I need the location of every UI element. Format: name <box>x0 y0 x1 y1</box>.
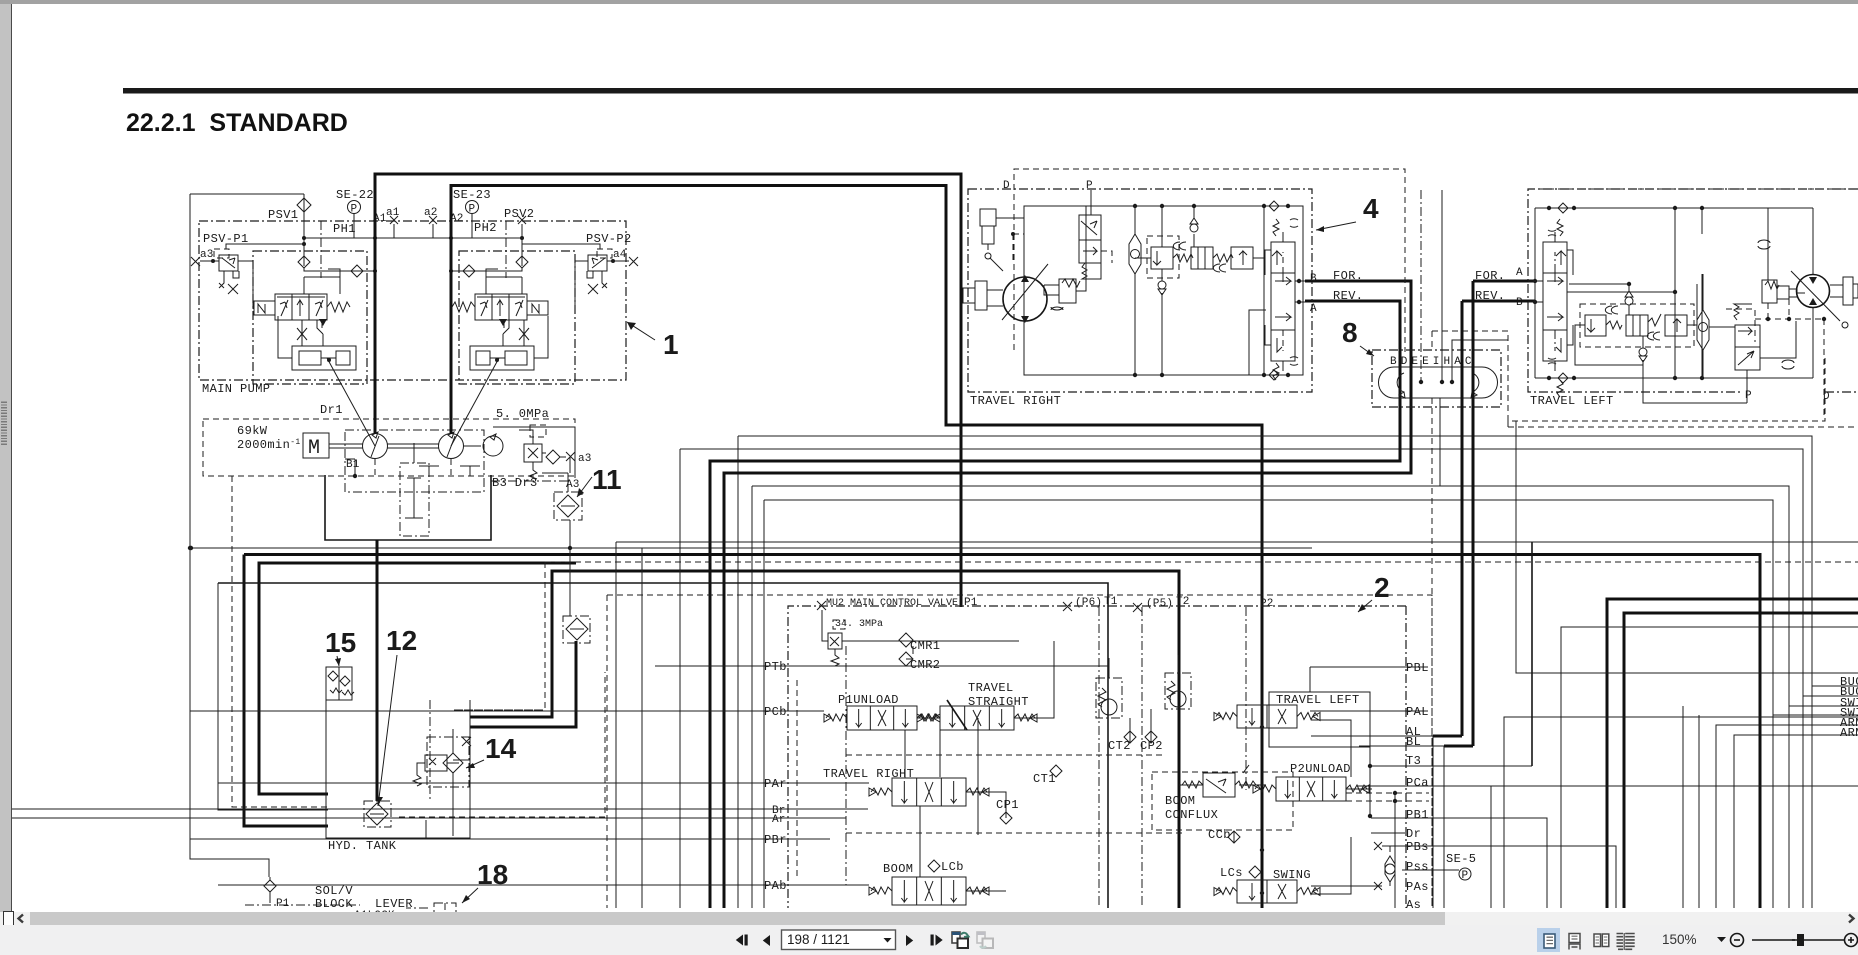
svg-text:CCb: CCb <box>1208 828 1231 842</box>
scrollbar corner box <box>3 911 14 927</box>
previous view icon <box>952 932 960 943</box>
brake cluster springs <box>1173 254 1193 262</box>
svg-text:STRAIGHT: STRAIGHT <box>968 695 1029 709</box>
svg-text:REV.: REV. <box>1333 289 1363 303</box>
wire PB1 <box>1371 818 1547 908</box>
MCV dash-dot enclosure <box>788 606 1406 908</box>
page number box <box>782 930 896 950</box>
wire PAL <box>1310 710 1428 712</box>
svg-text:PAr: PAr <box>764 777 787 791</box>
svg-text:CP1: CP1 <box>996 798 1019 812</box>
svg-text:PH2: PH2 <box>474 221 497 235</box>
cb left dashes <box>1554 252 1556 351</box>
wire T3 <box>1370 765 1532 767</box>
cluster left check top <box>1625 297 1633 305</box>
riser 642 <box>641 548 643 908</box>
tl solenoid spring <box>1734 304 1752 320</box>
riser 616 <box>615 542 617 908</box>
swivel stadium <box>1378 367 1497 398</box>
svg-text:CONFLUX: CONFLUX <box>1165 808 1218 822</box>
thick swivel line A <box>724 281 1411 719</box>
port P5 x-mark <box>1133 603 1142 612</box>
pilot valve U-right spring <box>452 302 475 312</box>
CMR wires <box>822 610 1019 659</box>
last page button <box>931 935 934 946</box>
travel motor left <box>1797 275 1830 308</box>
wire Dr <box>1371 832 1405 834</box>
wire case drain right <box>491 480 568 482</box>
thick riser 724 <box>723 719 726 908</box>
svg-text:LCb: LCb <box>941 860 964 874</box>
zoom out button <box>1731 934 1744 947</box>
regulator right dash-dot box <box>459 251 575 384</box>
tl long verticals <box>1675 208 1702 378</box>
tank stub wires <box>426 729 470 838</box>
wire nest mid <box>616 541 1858 543</box>
svg-text:PAs: PAs <box>1406 880 1429 894</box>
svg-text:TRAVEL LEFT: TRAVEL LEFT <box>1530 394 1614 408</box>
pilot valve U-right stem <box>486 269 522 294</box>
horizontal scrollbar row <box>0 912 1858 925</box>
wire AL <box>1311 735 1433 737</box>
svg-text:PCa: PCa <box>1406 776 1429 790</box>
svg-text:2: 2 <box>1374 572 1390 603</box>
BOOM CONFLUX dashdot box <box>1152 772 1293 830</box>
svg-text:P: P <box>1462 870 1469 882</box>
valve BOOM MCV <box>892 877 966 905</box>
svg-text:ARM: ARM <box>1840 726 1858 740</box>
svg-text:LCs: LCs <box>1220 866 1243 880</box>
swivel elbow H <box>1452 340 1508 382</box>
svg-text:B1: B1 <box>346 459 360 471</box>
shuttle valve right <box>1129 234 1141 274</box>
left reg drop arrow <box>319 319 327 326</box>
left sidebar strip <box>0 4 12 912</box>
wire nest row1b <box>680 449 1858 696</box>
motor shaft right <box>975 281 987 310</box>
right corner 673 <box>1516 421 1858 673</box>
check LCb <box>928 860 940 872</box>
pilot valve U-left stem <box>304 269 340 294</box>
tl relief feed <box>1767 208 1769 280</box>
filter mid diamond box <box>563 616 590 643</box>
solv wires <box>270 877 445 910</box>
pilot valve U-right arrows <box>480 300 523 316</box>
svg-text:PTb: PTb <box>764 660 787 674</box>
swivel dashed upper box <box>1432 331 1508 421</box>
counterbalance right bottom <box>1271 330 1295 361</box>
svg-text:12: 12 <box>386 625 417 656</box>
svg-text:8: 8 <box>1342 317 1358 348</box>
check CP1 <box>1000 812 1012 824</box>
travel motor right <box>1003 277 1047 321</box>
svg-text:Pss: Pss <box>1406 860 1429 874</box>
shuttle valve left <box>1697 310 1709 350</box>
svg-text:PCb: PCb <box>764 705 787 719</box>
tl motor top wire <box>1812 208 1814 378</box>
pilot valve U-left arrows <box>280 300 323 316</box>
svg-text:D: D <box>1003 180 1010 192</box>
svg-text:A: A <box>1516 267 1523 279</box>
counterbalance right top <box>1271 242 1295 273</box>
filter 14 group <box>443 753 463 773</box>
svg-text:PH1: PH1 <box>333 222 356 236</box>
pilot valve U-left spring <box>327 302 350 312</box>
svg-text:198 / 1121: 198 / 1121 <box>787 932 850 947</box>
zoom slider handle <box>1797 934 1804 946</box>
port a4R x-mark <box>629 257 638 266</box>
svg-text:SE-5: SE-5 <box>1446 852 1476 866</box>
swash link left <box>327 358 375 446</box>
regulator left dash-dot box <box>253 251 367 384</box>
check CT2 <box>1124 731 1136 743</box>
brake cluster dashed box <box>1147 236 1179 278</box>
throttle x left <box>297 328 307 340</box>
feed line right <box>451 268 522 271</box>
svg-text:a3: a3 <box>578 453 592 465</box>
wire PCa <box>1357 785 1491 787</box>
dashed long 427 <box>1508 426 1858 428</box>
thick pump line P2 top <box>451 186 1262 909</box>
tl cluster drain <box>1643 372 1747 403</box>
throttle x right <box>519 328 529 340</box>
PSV-P2 pilot wires <box>522 244 600 309</box>
filter 12 dash-dot box <box>364 801 391 827</box>
brake cluster left box1 <box>1585 315 1606 336</box>
pilot line left vertical <box>189 194 191 548</box>
svg-text:PAb: PAb <box>764 879 787 893</box>
relief valve 5MPa <box>524 444 542 462</box>
relief valve MCV mid2 <box>1165 673 1191 709</box>
thick rev left <box>1462 300 1535 303</box>
filter 11 dash-dot box <box>554 492 582 520</box>
swivel dashed drop <box>1431 398 1433 908</box>
P2UNLOAD dashed rows <box>1276 793 1429 801</box>
tank dashed wires <box>454 709 540 711</box>
label 14 with leader <box>466 733 517 768</box>
wire Br <box>0 808 868 810</box>
two page scrolling icon <box>1617 934 1635 950</box>
wire PBL drop <box>1309 667 1311 692</box>
zoom slider track <box>1752 939 1844 941</box>
filter 12 diamond <box>366 803 388 825</box>
wire A3 filter <box>542 473 568 492</box>
svg-text:As: As <box>1406 898 1421 912</box>
thick long bus 554 <box>244 555 1760 909</box>
tl rail dots <box>1547 206 1551 210</box>
svg-text:14: 14 <box>485 733 517 764</box>
tl A wire <box>1528 280 1543 282</box>
check LCs <box>1249 866 1261 878</box>
check diamond P1 solv <box>264 880 276 892</box>
brake cluster box2 <box>1191 247 1213 269</box>
accumulator center <box>400 463 429 536</box>
dashed vert MCV outer left <box>606 595 608 908</box>
wire nest row5 <box>1716 725 1858 908</box>
port PBs x-mark <box>1374 842 1382 850</box>
port P6 x-mark <box>1063 602 1072 611</box>
valve TRAVEL STRAIGHT <box>940 706 1014 730</box>
cb checks rail <box>1329 205 1331 207</box>
section rule <box>123 88 1858 94</box>
check valve right reg <box>516 256 528 268</box>
MCV right verticals <box>1370 693 1444 908</box>
swivel dashdot D <box>1420 190 1422 382</box>
travel group dashed box <box>1014 169 1405 352</box>
port 14 x-mark <box>462 737 471 746</box>
riser 680 <box>679 449 681 908</box>
svg-text:P2: P2 <box>1260 598 1274 610</box>
feed line left <box>304 268 375 271</box>
MCV dashed internals <box>796 680 798 880</box>
svg-text:1: 1 <box>663 329 679 360</box>
label 18 with leader <box>462 859 508 903</box>
row 583 to T1 <box>218 583 1108 908</box>
first page button <box>736 935 743 946</box>
label 12 with leader <box>377 625 417 806</box>
travel left inner box <box>1535 208 1813 378</box>
brake cluster left dashed box <box>1580 304 1694 347</box>
next page button <box>906 935 913 946</box>
pump case dashed box <box>203 419 575 476</box>
reducing valve PSV-P2 <box>588 255 607 271</box>
dashed box MCV outer <box>607 595 1432 908</box>
brake cluster box1 <box>1151 247 1173 269</box>
cb dashes <box>1282 252 1284 351</box>
pilot valve U-left pilot box <box>254 301 275 315</box>
valve TRAVEL LEFT MCV <box>1237 705 1297 728</box>
prev page button <box>763 935 770 946</box>
scrollbar thumb <box>30 912 1445 925</box>
shuttle Pss <box>1385 856 1395 882</box>
thick swivel downs <box>1462 281 1473 746</box>
svg-text:T1: T1 <box>1104 596 1118 608</box>
thick swivel line B <box>710 301 1400 729</box>
counterbalance left top <box>1543 242 1567 273</box>
dashed elbow 545 <box>454 562 545 710</box>
junction dot node <box>188 546 192 550</box>
svg-text:PBr: PBr <box>764 833 787 847</box>
svg-text:LEVER: LEVER <box>375 897 413 911</box>
valve TRAVEL LEFT MCV box <box>1269 692 1370 747</box>
svg-text:T2: T2 <box>1176 596 1190 608</box>
tl relief dashes <box>1768 299 1789 319</box>
svg-text:(P6): (P6) <box>1075 597 1102 609</box>
tl flow arcs <box>1782 360 1794 369</box>
travel left dash-dot box <box>1528 189 1858 392</box>
wire left column a <box>190 547 1312 549</box>
next view icon disabled <box>977 932 993 948</box>
reducing valve PSV-P1 <box>219 255 238 271</box>
travel right inner box <box>1024 206 1303 375</box>
pilot valve U-left body <box>275 294 327 320</box>
P2 dashdot riser <box>1245 607 1247 790</box>
wire bundle left vert <box>218 583 328 810</box>
valve BOOM CONFLUX <box>1203 773 1235 797</box>
right corner 627 <box>1561 627 1858 908</box>
thick elbow 571 to T2 <box>470 571 1179 908</box>
counterbalance left bottom <box>1543 330 1567 361</box>
motor brake valve right <box>1059 279 1076 303</box>
svg-text:HYD. TANK: HYD. TANK <box>328 839 397 853</box>
svg-text:PSV1: PSV1 <box>268 208 298 222</box>
svg-text:P2UNLOAD: P2UNLOAD <box>1290 762 1351 776</box>
case inner dash-dot <box>345 430 484 492</box>
wire nest row3 <box>752 486 1858 706</box>
motor shaft left <box>1843 277 1853 305</box>
label 8 with leader <box>1342 317 1374 356</box>
MCV inner risers <box>845 646 847 885</box>
scrollbar left arrow <box>16 913 26 924</box>
svg-text:TRAVEL RIGHT: TRAVEL RIGHT <box>823 767 914 781</box>
wire PAr <box>218 782 869 784</box>
brake cluster box3 <box>1231 247 1253 269</box>
junction dot B1 <box>353 474 357 478</box>
svg-text:PAL: PAL <box>1406 705 1429 719</box>
brake cluster check bot <box>1158 281 1166 289</box>
label 2 with leader <box>1358 572 1390 612</box>
svg-text:P: P <box>1086 180 1093 192</box>
brake cluster left box2 <box>1626 315 1648 336</box>
label 15 with leader <box>325 627 356 666</box>
label 11 with leader <box>577 464 622 497</box>
cluster left check bot <box>1639 348 1647 356</box>
wire PTb <box>655 665 1108 667</box>
svg-text:PSV2: PSV2 <box>504 207 534 221</box>
wire PAb <box>218 884 869 886</box>
port a3 x-mark <box>566 452 575 461</box>
PSV-P1 pilot wires <box>226 244 304 309</box>
check diamond a3 <box>546 450 560 464</box>
port a2 x-mark <box>429 216 437 224</box>
thick filter to tank <box>470 641 576 727</box>
svg-text:SE-23: SE-23 <box>453 188 491 202</box>
pump shaft <box>329 444 481 448</box>
wire PCb <box>190 710 824 712</box>
valve SWING MCV <box>1237 880 1297 903</box>
toolbar background <box>0 925 1858 955</box>
pilot line top <box>190 193 304 195</box>
brake cluster left springs <box>1606 321 1622 329</box>
MCV center verticals <box>1107 607 1109 908</box>
check pair 15 <box>326 667 352 700</box>
check CMR1 <box>899 633 913 647</box>
svg-text:PBL: PBL <box>1406 661 1429 675</box>
PH dashdot stubs <box>321 221 506 278</box>
wire PBr <box>190 838 830 840</box>
svg-text:M: M <box>308 437 320 460</box>
scrolling page icon <box>1569 934 1580 943</box>
cluster rail wires <box>1135 206 1264 375</box>
label 4 with leader <box>1316 193 1379 232</box>
tl mid wire <box>1567 291 1675 293</box>
svg-text:B: B <box>1516 297 1523 309</box>
svg-text:CT2: CT2 <box>1108 739 1131 753</box>
pressure gauge SE-22 <box>348 201 361 214</box>
PSV-P1 drain <box>219 271 239 294</box>
MCV dashdot verticals <box>1099 607 1142 908</box>
P2 column dots <box>1260 848 1264 852</box>
dashed long 562 <box>545 561 1858 563</box>
pilot drop PSV2 <box>521 238 523 266</box>
wires PBs PAs <box>1311 846 1616 908</box>
svg-text:Dr1: Dr1 <box>320 403 343 417</box>
pump circle P2 <box>439 434 464 459</box>
check CP2 <box>1145 731 1157 743</box>
swash actuator left <box>292 346 356 370</box>
swash link right <box>451 358 499 446</box>
thick tank feed 12 <box>376 540 379 801</box>
svg-text:a4: a4 <box>613 249 627 261</box>
check CMR2 <box>899 652 913 666</box>
tl solenoid to motor <box>1747 321 1796 403</box>
check valve PSV1 <box>297 198 311 212</box>
pilot valve U-right pilot box <box>527 301 548 315</box>
filter mid diamond <box>566 618 588 640</box>
check CT1 <box>1050 765 1062 777</box>
travel right dash-dot box <box>968 189 1312 392</box>
svg-text:a3: a3 <box>200 249 214 261</box>
relief circuit box <box>493 427 575 478</box>
swivel dash-dot box <box>1372 350 1501 407</box>
scrollbar right arrow <box>1846 913 1856 924</box>
swivel dots <box>1419 380 1423 384</box>
cluster left wires <box>1569 284 1697 365</box>
reg connect left <box>278 316 323 358</box>
brake cluster check top <box>1190 224 1198 232</box>
thick right corner 599 <box>1607 599 1858 908</box>
main pump dash-dot enclosure <box>199 221 626 380</box>
counterbalance left mid <box>1543 273 1567 330</box>
check valve left reg <box>298 256 310 268</box>
zoom in button <box>1845 934 1858 947</box>
swivel line I <box>1441 190 1443 382</box>
svg-text:18: 18 <box>477 859 508 890</box>
svg-text:P1: P1 <box>276 898 290 910</box>
wire nest row1 <box>738 436 1858 686</box>
reg connect right <box>503 316 548 358</box>
tr bottom rail dots <box>1024 374 1026 376</box>
pump circle P1 <box>363 434 388 459</box>
valve TRAVEL RIGHT MCV <box>892 778 966 806</box>
svg-text:BOOM: BOOM <box>1165 794 1195 808</box>
travel right cylinder <box>980 209 996 226</box>
return line 563 <box>259 563 576 794</box>
svg-text:2000min-1: 2000min-1 <box>237 438 301 453</box>
tl B wire <box>1528 301 1543 303</box>
thick riser 710 <box>709 729 712 908</box>
tank internal dashdot <box>429 700 431 800</box>
right corner 717 <box>1504 717 1858 908</box>
svg-text:PBs: PBs <box>1406 840 1429 854</box>
svg-text:(P5): (P5) <box>1146 598 1173 610</box>
relief valve MCV mid1 <box>1096 678 1122 718</box>
two page icon <box>1594 934 1601 947</box>
svg-text:TRAVEL: TRAVEL <box>968 681 1014 695</box>
wire PBL <box>1310 666 1428 668</box>
port P1 x-mark <box>817 601 826 610</box>
cb right springs <box>1273 219 1279 236</box>
shuttle dots <box>1133 204 1137 208</box>
port a3L x-mark <box>191 257 200 266</box>
svg-text:11: 11 <box>592 464 622 495</box>
svg-text:BOOM: BOOM <box>883 862 913 876</box>
svg-text:69kW: 69kW <box>237 424 268 438</box>
MCV internal wires <box>917 641 1372 894</box>
svg-text:22.2.1 STANDARD: 22.2.1 STANDARD <box>126 109 348 137</box>
svg-text:FOR.: FOR. <box>1333 269 1363 283</box>
cb left springs <box>1548 230 1556 236</box>
